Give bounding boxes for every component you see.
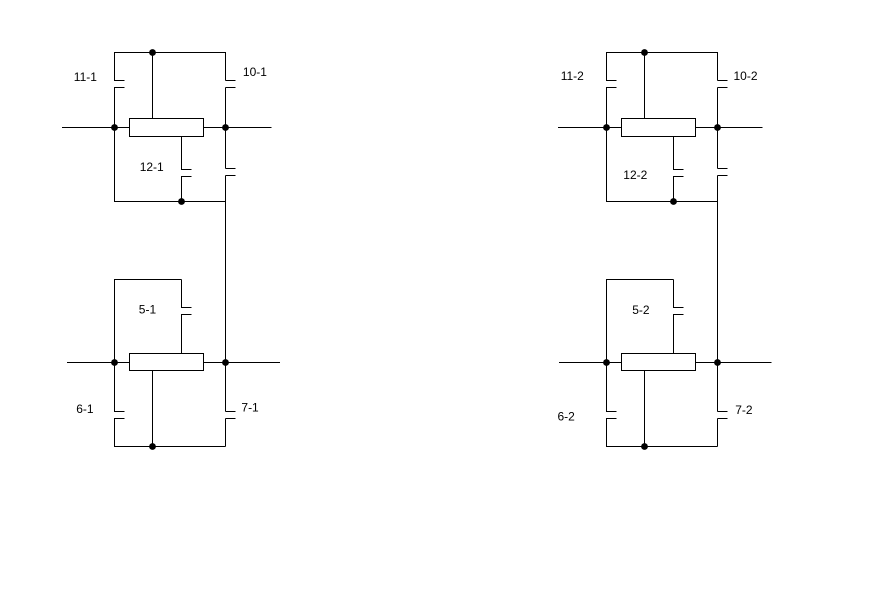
svg-text:5-1: 5-1 (139, 302, 157, 316)
capacitor 11-1 (114, 80, 125, 82)
wire left branch to capacitor 6-2 (606, 363, 608, 412)
wire left branch below capacitor 6-2 (606, 419, 608, 447)
junction dot mid bus left-left (111, 124, 118, 131)
wire left branch upper segment (606, 53, 608, 81)
wire left branch lower segment (606, 88, 608, 128)
wire left branch from mid bus to bottom rail (606, 128, 608, 202)
capacitor 6-2 (606, 411, 617, 413)
junction dot top node left (149, 49, 156, 56)
component box (bottom-right cell) (622, 354, 696, 371)
wire left branch from mid bus to bottom rail (114, 128, 116, 202)
capacitor (unlabeled, right branch lower) (718, 168, 728, 170)
junction dot bottom rail top-right cell (670, 198, 677, 205)
wire left branch to capacitor 6-1 (114, 363, 116, 412)
capacitor 10-1 (226, 80, 236, 82)
wire left branch of bottom cell upper (114, 280, 116, 363)
wire bottom rail of top-right cell (606, 201, 718, 203)
wire top rail of bottom-left cell (114, 279, 182, 281)
wire from box bottom to capacitor 12-1 (181, 137, 183, 170)
junction dot mid bus bottom-right-right (714, 359, 721, 366)
junction dot mid bus left-right (222, 124, 229, 131)
capacitor 5-2 (673, 307, 684, 309)
wire left branch below capacitor 6-1 (114, 419, 116, 447)
svg-text:10-1: 10-1 (243, 65, 267, 79)
wire mid horizontal bus right cell (558, 127, 763, 129)
wire right branch middle segment (225, 88, 227, 169)
wire from capacitor 12-1 to bottom rail (181, 177, 183, 202)
wire left branch upper segment (114, 53, 116, 81)
svg-text:11-2: 11-2 (561, 69, 584, 83)
capacitor 11-2 (606, 80, 617, 82)
wire mid horizontal bus bottom-right cell (559, 362, 772, 364)
junction dot bottom rail top-left cell (178, 198, 185, 205)
wire right branch long vertical down to bottom cell (717, 176, 719, 412)
capacitor 10-2 (718, 80, 728, 82)
svg-text:6-2: 6-2 (558, 410, 576, 424)
wire from box bottom to bottom rail (152, 371, 154, 447)
junction dot mid bus bottom-left-right (222, 359, 229, 366)
wire right branch upper segment (717, 53, 719, 81)
wire bottom rail of bottom-right cell (606, 446, 718, 448)
junction dot mid bus right-right (714, 124, 721, 131)
wire from capacitor 5-2 to box top (673, 315, 675, 354)
wire branch down to capacitor 5-1 (181, 280, 183, 308)
wire from box bottom to capacitor 12-2 (673, 137, 675, 170)
wire mid horizontal bus left cell (62, 127, 272, 129)
junction dot mid bus bottom-right-left (603, 359, 610, 366)
wire top rail of bottom-right cell (606, 279, 674, 281)
wire left branch lower segment (114, 88, 116, 128)
capacitor (unlabeled, right branch lower) (226, 168, 236, 170)
junction dot top node right (641, 49, 648, 56)
svg-text:7-1: 7-1 (241, 401, 259, 415)
svg-text:10-2: 10-2 (734, 69, 758, 83)
svg-text:7-2: 7-2 (735, 403, 753, 417)
wire bottom rail of top-left cell (114, 201, 226, 203)
wire branch down to capacitor 5-2 (673, 280, 675, 308)
capacitor 7-2 (718, 411, 728, 413)
capacitor 7-1 (226, 411, 236, 413)
wire right branch middle segment (717, 88, 719, 169)
junction dot bottom rail bottom-left cell (149, 443, 156, 450)
svg-text:11-1: 11-1 (74, 70, 97, 84)
wire center vertical from top node to box (644, 53, 646, 119)
capacitor 12-2 (673, 169, 684, 171)
wire bottom rail of bottom-left cell (114, 446, 226, 448)
wire right branch below capacitor 7-2 (717, 419, 719, 447)
component box (top-left cell) (130, 119, 204, 137)
wire from capacitor 12-2 to bottom rail (673, 177, 675, 202)
junction dot mid bus right-left (603, 124, 610, 131)
junction dot bottom rail bottom-right cell (641, 443, 648, 450)
wire left branch of bottom cell upper (606, 280, 608, 363)
svg-text:12-2: 12-2 (623, 168, 647, 182)
wire from box bottom to bottom rail (644, 371, 646, 447)
wire right branch below capacitor 7-1 (225, 419, 227, 447)
svg-text:6-1: 6-1 (76, 402, 94, 416)
wire top horizontal (node between 11-2 and 10-2) (606, 52, 718, 54)
wire right branch upper segment (225, 53, 227, 81)
wire right branch long vertical down to bottom cell (225, 176, 227, 412)
capacitor 6-1 (114, 411, 125, 413)
wire center vertical from top node to box (152, 53, 154, 119)
wire mid horizontal bus bottom-left cell (67, 362, 280, 364)
wire from capacitor 5-1 to box top (181, 315, 183, 354)
component box (top-right cell) (622, 119, 696, 137)
capacitor 12-1 (181, 169, 192, 171)
component box (bottom-left cell) (130, 354, 204, 371)
junction dot mid bus bottom-left-left (111, 359, 118, 366)
capacitor 5-1 (181, 307, 192, 309)
wire top horizontal (node between 11-1 and 10-1) (114, 52, 226, 54)
svg-text:5-2: 5-2 (632, 303, 650, 317)
svg-text:12-1: 12-1 (140, 160, 164, 174)
